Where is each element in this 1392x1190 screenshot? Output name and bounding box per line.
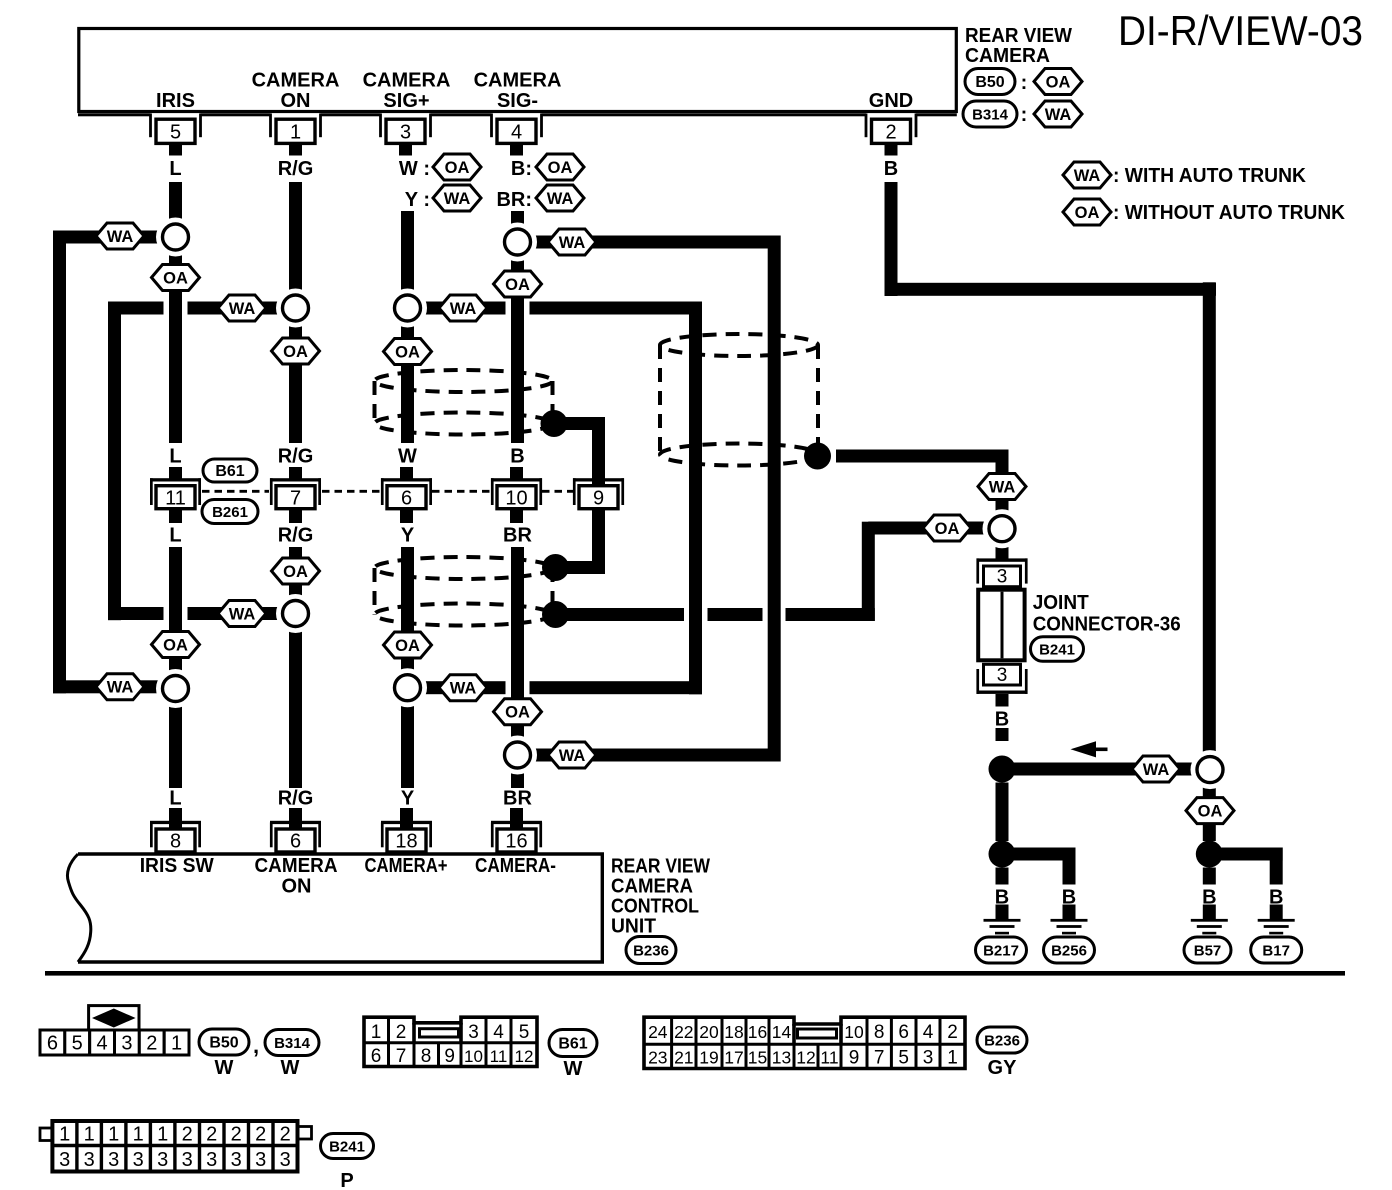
connector id B314 : WA xyxy=(963,101,1017,127)
svg-text:OA: OA xyxy=(395,637,420,655)
svg-text:WA: WA xyxy=(450,300,477,318)
svg-text:6: 6 xyxy=(290,831,301,853)
svg-text:: WITHOUT AUTO TRUNK: : WITHOUT AUTO TRUNK xyxy=(1113,202,1346,224)
flag OA on CAMERA ON wire xyxy=(272,338,320,364)
svg-text:4: 4 xyxy=(511,122,522,144)
connector pin 16 (camera control unit B236) xyxy=(510,808,523,828)
svg-text:OA: OA xyxy=(505,276,530,294)
svg-text:WA: WA xyxy=(444,190,471,208)
svg-text:4: 4 xyxy=(493,1022,504,1043)
connector circle IRIS top xyxy=(156,218,195,257)
flag OA on CAMERA SIG- lower wire xyxy=(494,699,542,725)
svg-text:20: 20 xyxy=(699,1022,719,1042)
svg-text:B61: B61 xyxy=(558,1036,587,1053)
svg-text:5: 5 xyxy=(898,1048,909,1069)
svg-text:WA: WA xyxy=(229,300,256,318)
connector circle IRIS bottom xyxy=(156,669,195,708)
svg-text:3: 3 xyxy=(231,1149,242,1171)
svg-text:10: 10 xyxy=(844,1022,864,1042)
svg-text:3: 3 xyxy=(255,1149,266,1171)
svg-text:12: 12 xyxy=(796,1048,815,1068)
svg-text:L: L xyxy=(169,525,181,547)
component box: REAR VIEW CAMERA CONTROL UNIT xyxy=(78,854,602,962)
wire shield drain from pin 9 bottom xyxy=(592,510,605,575)
svg-text:B: B xyxy=(995,709,1009,731)
svg-text:B217: B217 xyxy=(983,943,1019,960)
svg-text:B256: B256 xyxy=(1051,943,1087,960)
svg-text:BR: BR xyxy=(503,525,532,547)
connector pin 6 (camera control unit B236) xyxy=(289,808,302,828)
svg-text:B241: B241 xyxy=(329,1139,365,1156)
svg-text:2: 2 xyxy=(280,1124,291,1146)
svg-text:CAMERA: CAMERA xyxy=(474,70,562,92)
svg-text:18: 18 xyxy=(724,1022,743,1042)
arrow marker pointing left on WA ground link xyxy=(1071,741,1097,757)
connector id B57 xyxy=(1184,937,1231,963)
connector id B50 : OA xyxy=(965,69,1015,95)
svg-text:1: 1 xyxy=(371,1022,382,1043)
ground symbol B57 xyxy=(1203,905,1216,920)
svg-text:W: W xyxy=(281,1057,300,1079)
svg-text:10: 10 xyxy=(464,1047,483,1066)
connector pin 3 (rear view camera B50/B314) xyxy=(379,114,382,138)
svg-text:OA: OA xyxy=(163,636,188,654)
svg-text:R/G: R/G xyxy=(278,158,314,180)
svg-text:OA: OA xyxy=(283,563,308,581)
connector id B261 xyxy=(202,500,258,524)
wire CAMERA ON WA bypass: inner left loop xyxy=(108,302,164,315)
svg-text:WA: WA xyxy=(1045,106,1072,124)
flag OA on shield drain xyxy=(923,515,971,541)
svg-text:DI-R/VIEW-03: DI-R/VIEW-03 xyxy=(1118,7,1363,54)
ground symbol B217 xyxy=(996,905,1009,920)
svg-text:14: 14 xyxy=(772,1022,792,1042)
svg-text:4: 4 xyxy=(923,1022,934,1043)
wire CAMERA SIG- B: pin 4 down xyxy=(511,211,524,443)
svg-text:IRIS: IRIS xyxy=(156,90,195,112)
svg-text:3: 3 xyxy=(206,1149,217,1171)
junction dot: shield upper cylinder to pin 9 xyxy=(541,410,568,437)
connector circle CAMERA SIG- top xyxy=(498,223,537,262)
svg-text:1: 1 xyxy=(59,1124,70,1146)
connector circle CAMERA SIG+ top xyxy=(388,289,427,328)
flag OA on CAMERA SIG- wire xyxy=(494,271,542,297)
connector face view B50/B314 (6-pin) xyxy=(40,1030,65,1055)
svg-text:1: 1 xyxy=(133,1124,144,1146)
svg-text:3: 3 xyxy=(182,1149,193,1171)
svg-text:W: W xyxy=(215,1057,234,1079)
legend WA : WITH AUTO TRUNK xyxy=(1063,162,1111,188)
svg-text:WA: WA xyxy=(107,679,134,697)
wire CAMERA SIG+ Y: lower section to pin 18 xyxy=(401,547,414,788)
connector pin 7 (inline connector B61/B261) xyxy=(289,467,302,479)
svg-text:CAMERA: CAMERA xyxy=(611,876,693,898)
svg-text:CAMERA: CAMERA xyxy=(965,45,1050,67)
junction dot: B57/B17 split xyxy=(1196,841,1223,868)
svg-text:B:: B: xyxy=(511,158,532,180)
svg-text:2: 2 xyxy=(255,1124,266,1146)
svg-text:Y :: Y : xyxy=(405,189,430,211)
svg-text:8: 8 xyxy=(170,831,181,853)
connector circle CAMERA ON bottom xyxy=(276,594,315,633)
flag WA on CAMERA SIG+ bypass bottom xyxy=(439,675,487,701)
svg-text:CAMERA+: CAMERA+ xyxy=(365,855,448,877)
flag OA on CAMERA SIG+ wire xyxy=(384,339,432,365)
connector id B314 (face) xyxy=(265,1030,319,1056)
svg-text:WA: WA xyxy=(559,234,586,252)
svg-text:,: , xyxy=(253,1033,259,1058)
svg-text:B241: B241 xyxy=(1039,642,1075,659)
connector pin 11 (inline connector B61/B261) xyxy=(169,467,182,479)
ground symbol B17 xyxy=(1270,905,1283,920)
dashed connector link line xyxy=(202,490,269,493)
svg-text:OA: OA xyxy=(1075,204,1100,222)
svg-text:6: 6 xyxy=(371,1046,382,1067)
connector pin 9 (inline connector B61/B261) xyxy=(592,467,605,479)
svg-text:7: 7 xyxy=(290,487,301,509)
svg-text:3: 3 xyxy=(84,1149,95,1171)
svg-text:BR:: BR: xyxy=(496,189,532,211)
connector id B17 xyxy=(1251,937,1302,963)
svg-text:24: 24 xyxy=(648,1022,668,1042)
wire joint connector B241 to grounds B217/B256 xyxy=(996,694,1009,707)
svg-text:Y: Y xyxy=(401,788,415,810)
flag OA on CAMERA SIG+ lower wire xyxy=(384,632,432,658)
connector face view B241 (20-pin joint) xyxy=(40,1128,52,1141)
svg-text:8: 8 xyxy=(874,1022,885,1043)
svg-text:1: 1 xyxy=(84,1124,95,1146)
svg-text:3: 3 xyxy=(280,1149,291,1171)
svg-text:3: 3 xyxy=(133,1149,144,1171)
svg-text:5: 5 xyxy=(519,1022,530,1043)
svg-text:WA: WA xyxy=(559,747,586,765)
svg-text:1: 1 xyxy=(108,1124,119,1146)
wire WA link between ground columns (arrow) xyxy=(1002,763,1198,776)
wire shield drain to pin 9 top xyxy=(554,417,605,430)
svg-text:7: 7 xyxy=(874,1048,885,1069)
svg-text:22: 22 xyxy=(674,1022,693,1042)
svg-text:WA: WA xyxy=(1074,167,1101,185)
svg-text:3: 3 xyxy=(468,1022,479,1043)
connector id B217 xyxy=(976,937,1027,963)
svg-text:B61: B61 xyxy=(215,463,244,480)
connector circle joint connector top xyxy=(983,509,1022,548)
separator line xyxy=(45,971,1345,976)
svg-text:OA: OA xyxy=(505,704,530,722)
svg-text:11: 11 xyxy=(490,1047,508,1066)
svg-text:OA: OA xyxy=(283,343,308,361)
svg-text:3: 3 xyxy=(121,1033,132,1055)
connector face view B61 (12-pin) xyxy=(364,1017,537,1066)
svg-text:1: 1 xyxy=(290,122,301,144)
svg-text:WA: WA xyxy=(547,190,574,208)
connector id B61 xyxy=(203,459,257,482)
svg-text:W :: W : xyxy=(399,158,430,180)
svg-text:B314: B314 xyxy=(274,1035,311,1052)
svg-text:7: 7 xyxy=(396,1046,407,1067)
svg-text:B: B xyxy=(884,158,898,180)
svg-text:L: L xyxy=(169,158,181,180)
svg-text:ON: ON xyxy=(282,876,312,898)
svg-text:L: L xyxy=(169,446,181,468)
wire shield drain WA path to joint connector xyxy=(836,450,1009,463)
svg-text:18: 18 xyxy=(395,831,417,853)
svg-text:3: 3 xyxy=(400,122,411,144)
junction dot: B217 column upper xyxy=(989,756,1016,783)
flag WA on CAMERA SIG+ bypass top xyxy=(439,295,487,321)
svg-text:2: 2 xyxy=(885,122,896,144)
connector pin 4 (rear view camera B50/B314) xyxy=(490,114,493,138)
svg-text:WA: WA xyxy=(1143,761,1170,779)
svg-text:4: 4 xyxy=(97,1033,108,1055)
flag WA on CAMERA SIG- bypass top xyxy=(548,229,596,255)
connector id B241 (face) xyxy=(321,1134,374,1159)
svg-text:B50: B50 xyxy=(975,74,1004,91)
svg-text:WA: WA xyxy=(229,605,256,623)
svg-text:R/G: R/G xyxy=(278,788,314,810)
svg-text:2: 2 xyxy=(947,1022,958,1043)
shield of camera signal cable (lower, dashed cylinder) xyxy=(375,557,553,579)
connector circle CAMERA ON top xyxy=(276,289,315,328)
wire IRIS L: lower section to pin 8 xyxy=(169,547,182,788)
svg-text:GND: GND xyxy=(869,90,913,112)
connector id B236 (control unit) xyxy=(626,937,676,964)
svg-text:OA: OA xyxy=(395,343,420,361)
connector circle CAMERA SIG- bottom xyxy=(498,736,537,775)
joint connector-36 B241 xyxy=(977,558,1028,561)
connector pin 10 (inline connector B61/B261) xyxy=(510,467,523,479)
flag WA on ground link xyxy=(1132,756,1180,782)
connector face view B236 (24-pin) xyxy=(644,1017,965,1068)
svg-text:9: 9 xyxy=(849,1048,860,1069)
svg-text:REAR VIEW: REAR VIEW xyxy=(611,856,710,878)
svg-text:5: 5 xyxy=(170,122,181,144)
flag WA on CAMERA ON bypass top xyxy=(218,295,266,321)
svg-text:CONNECTOR-36: CONNECTOR-36 xyxy=(1033,614,1181,636)
svg-text:B236: B236 xyxy=(633,943,669,960)
wire CAMERA SIG+ WA bypass: right loop xyxy=(413,302,506,315)
svg-text:13: 13 xyxy=(772,1048,791,1068)
svg-text:B314: B314 xyxy=(972,107,1009,124)
svg-text:UNIT: UNIT xyxy=(611,916,656,938)
svg-text:CONTROL: CONTROL xyxy=(611,896,699,918)
component box: REAR VIEW CAMERA xyxy=(79,29,957,112)
svg-text:15: 15 xyxy=(748,1048,767,1068)
svg-text:P: P xyxy=(340,1170,353,1190)
svg-text:B261: B261 xyxy=(212,504,248,521)
svg-text:B50: B50 xyxy=(209,1035,238,1052)
shield of camera signal cable (upper, dashed cylinder) xyxy=(375,370,553,392)
svg-text:B236: B236 xyxy=(984,1033,1020,1050)
svg-text:19: 19 xyxy=(699,1048,718,1068)
junction dot: shield large cylinder WA drain xyxy=(804,443,831,470)
connector pin 8 (camera control unit B236) xyxy=(169,808,182,828)
svg-text:W: W xyxy=(564,1058,583,1080)
svg-text:21: 21 xyxy=(674,1048,693,1068)
connector id B241 (joint) xyxy=(1031,637,1084,662)
wire CAMERA SIG- BR: lower section to pin 16 xyxy=(511,547,524,768)
junction dot: shield lower cylinder OA drain xyxy=(542,601,569,628)
shield of camera signal cable (large, dashed cylinder) xyxy=(660,334,818,356)
svg-text:2: 2 xyxy=(146,1033,157,1055)
svg-text:9: 9 xyxy=(444,1046,455,1067)
svg-text:1: 1 xyxy=(157,1124,168,1146)
svg-text:SIG+: SIG+ xyxy=(383,90,429,112)
flag OA on CAMERA ON lower wire xyxy=(272,558,320,584)
svg-text:WA: WA xyxy=(450,680,477,698)
connector pin 1 (rear view camera B50/B314) xyxy=(269,114,272,138)
svg-text:JOINT: JOINT xyxy=(1033,592,1089,614)
connector id B236 (face) xyxy=(977,1027,1027,1053)
svg-text:2: 2 xyxy=(206,1124,217,1146)
legend OA : WITHOUT AUTO TRUNK xyxy=(1063,199,1111,225)
svg-text:OA: OA xyxy=(163,269,188,287)
svg-text:6: 6 xyxy=(898,1022,909,1043)
svg-text:ON: ON xyxy=(281,90,311,112)
svg-text:R/G: R/G xyxy=(278,446,314,468)
svg-text:3: 3 xyxy=(59,1149,70,1171)
svg-text:: WITH AUTO TRUNK: : WITH AUTO TRUNK xyxy=(1113,165,1307,187)
flag WA on CAMERA SIG- bypass bottom xyxy=(548,742,596,768)
svg-text:IRIS SW: IRIS SW xyxy=(140,855,214,877)
svg-text:Y: Y xyxy=(401,525,415,547)
svg-text:5: 5 xyxy=(72,1033,83,1055)
wire shield drain OA path to joint connector xyxy=(555,608,684,621)
svg-text:3: 3 xyxy=(997,665,1008,686)
junction dot: shield lower cylinder to pin 9 xyxy=(542,554,569,581)
svg-text:16: 16 xyxy=(505,831,527,853)
svg-text:L: L xyxy=(169,788,181,810)
svg-text:1: 1 xyxy=(947,1048,958,1069)
wire CAMERA SIG- WA bypass: outer right loop xyxy=(518,236,781,249)
flag WA on shield drain xyxy=(978,474,1026,500)
wire IRIS WA bypass: left loop xyxy=(53,231,176,244)
wire CAMERA ON R/G: pin 1 down xyxy=(289,182,302,443)
svg-text:2: 2 xyxy=(396,1022,407,1043)
svg-text:BR: BR xyxy=(503,788,532,810)
svg-text:2: 2 xyxy=(182,1124,193,1146)
wire GND B: pin 2 to ground network xyxy=(885,182,898,296)
svg-text:REAR VIEW: REAR VIEW xyxy=(965,25,1072,47)
wire GND OA path to grounds B57/B17 xyxy=(1203,783,1216,842)
connector circle CAMERA SIG+ bottom xyxy=(388,668,427,707)
svg-text:6: 6 xyxy=(47,1033,58,1055)
connector pin 6 (inline connector B61/B261) xyxy=(400,467,413,479)
flag OA on IRIS wire xyxy=(152,265,200,291)
svg-text:10: 10 xyxy=(505,487,527,509)
svg-text:6: 6 xyxy=(401,487,412,509)
svg-text:WA: WA xyxy=(107,228,134,246)
svg-text:W: W xyxy=(398,446,417,468)
wire CAMERA SIG+ W: pin 3 down xyxy=(401,211,414,443)
junction dot: B217/B256 split xyxy=(989,841,1016,868)
svg-text:2: 2 xyxy=(231,1124,242,1146)
ground symbol B256 xyxy=(1063,905,1076,920)
svg-text:16: 16 xyxy=(748,1022,767,1042)
svg-text:12: 12 xyxy=(515,1047,534,1066)
svg-text:17: 17 xyxy=(724,1048,743,1068)
connector pin 2 (rear view camera B50/B314) xyxy=(865,114,868,138)
connector pin 5 (rear view camera B50/B314) xyxy=(149,114,152,138)
svg-text:CAMERA-: CAMERA- xyxy=(475,855,556,877)
svg-text:1: 1 xyxy=(171,1033,182,1055)
svg-text:R/G: R/G xyxy=(278,525,314,547)
connector id B50 (face) xyxy=(199,1029,249,1055)
wire joint connector top stub xyxy=(996,540,1009,559)
svg-text:CAMERA: CAMERA xyxy=(252,70,340,92)
svg-text:3: 3 xyxy=(108,1149,119,1171)
svg-text:B57: B57 xyxy=(1194,943,1222,960)
svg-text:8: 8 xyxy=(421,1046,432,1067)
svg-text:23: 23 xyxy=(648,1048,667,1068)
svg-text:OA: OA xyxy=(445,159,470,177)
svg-text:B17: B17 xyxy=(1262,943,1290,960)
connector circle ground column B57 xyxy=(1191,750,1230,789)
flag OA on B57 ground wire xyxy=(1186,798,1234,824)
svg-text:3: 3 xyxy=(997,567,1008,588)
svg-text::: : xyxy=(1021,104,1028,126)
svg-text:GY: GY xyxy=(988,1057,1018,1079)
svg-text:3: 3 xyxy=(923,1048,934,1069)
svg-text:OA: OA xyxy=(548,159,573,177)
connector id B256 xyxy=(1044,937,1095,963)
svg-text:OA: OA xyxy=(1198,802,1223,820)
flag WA on IRIS bypass top xyxy=(96,223,144,249)
svg-text:SIG-: SIG- xyxy=(497,90,538,112)
svg-text:OA: OA xyxy=(935,520,960,538)
svg-text:B: B xyxy=(510,446,524,468)
svg-text:11: 11 xyxy=(165,487,186,509)
svg-text:9: 9 xyxy=(593,487,604,509)
svg-text:3: 3 xyxy=(157,1149,168,1171)
flag WA on CAMERA ON bypass bottom xyxy=(218,601,266,627)
svg-text:CAMERA: CAMERA xyxy=(255,855,338,877)
connector pin 18 (camera control unit B236) xyxy=(400,808,413,828)
svg-text::: : xyxy=(1021,72,1028,94)
svg-text:WA: WA xyxy=(989,478,1016,496)
flag WA on IRIS bypass bottom xyxy=(96,674,144,700)
wire IRIS L: pin 5 to circle junction xyxy=(169,182,182,443)
wire CAMERA ON R/G: lower section to pin 6 xyxy=(289,547,302,788)
connector id B61 (face) xyxy=(549,1030,597,1057)
svg-text:OA: OA xyxy=(1046,73,1071,91)
svg-text:11: 11 xyxy=(820,1048,838,1068)
flag OA on IRIS lower wire xyxy=(152,632,200,658)
svg-text:CAMERA: CAMERA xyxy=(363,70,451,92)
